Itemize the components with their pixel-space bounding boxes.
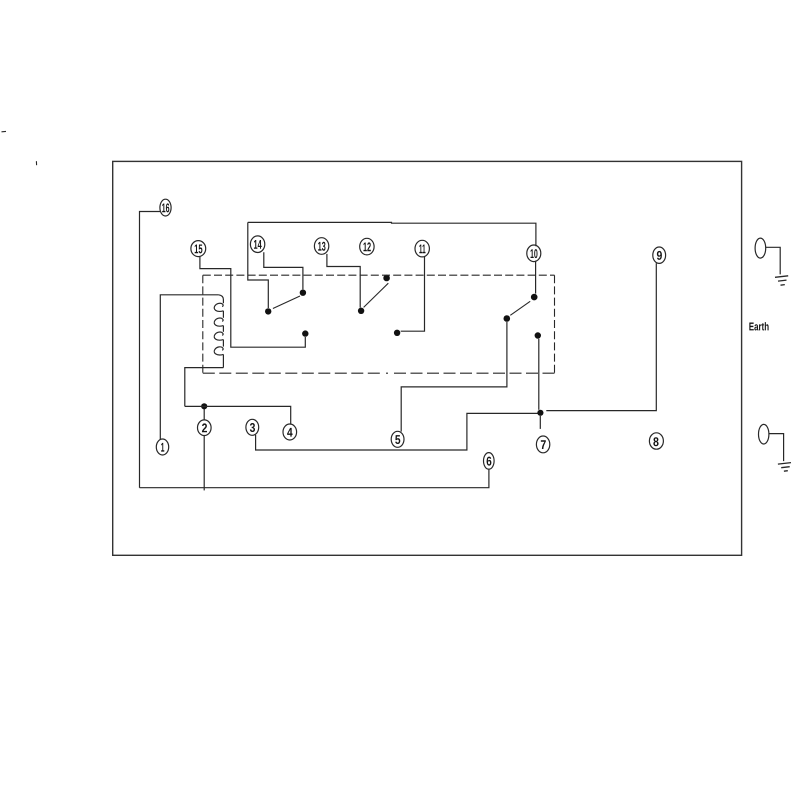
coil loop 4: [214, 347, 223, 355]
terminal 1 label: [161, 443, 164, 452]
terminal 2: [198, 420, 212, 436]
relay dashed enclosure top: [203, 274, 555, 276]
contact dot B: [300, 290, 306, 296]
contact dot I: [535, 332, 541, 338]
coil loop 1: [214, 303, 223, 311]
earth port 1 ellipse: [755, 238, 766, 258]
terminal 8 label: [653, 437, 658, 446]
wire contact A to top bus: [248, 222, 268, 308]
terminal 12: [360, 238, 374, 255]
relay dashed enclosure right: [554, 275, 556, 373]
terminal 7 label: [541, 440, 546, 449]
terminal 11 label: [419, 244, 425, 253]
wire contact H to terminal5: [401, 322, 507, 432]
wire terminal15 to contact C: [200, 256, 305, 347]
terminal 3: [246, 419, 259, 435]
wire terminal11 to contact F: [401, 257, 425, 331]
wire terminal16 lead: [140, 212, 161, 488]
wire bottom bus to terminal 6: [140, 469, 489, 488]
terminal 13 label: [318, 242, 325, 251]
terminal 7: [536, 436, 549, 453]
terminal 13: [314, 238, 328, 255]
terminal 15 label: [195, 244, 203, 253]
wire junction J to terminal3: [256, 413, 538, 450]
earth 2 wire: [769, 434, 784, 462]
terminal 10: [527, 245, 541, 262]
terminal 10 label: [531, 249, 538, 258]
switch arm D-E: [364, 283, 389, 307]
coil loop 3: [214, 332, 223, 340]
terminal 2 label: [202, 423, 207, 432]
terminal 1: [156, 439, 168, 455]
terminal 16 label: [162, 203, 169, 212]
terminal 9 label: [657, 251, 662, 260]
terminal 12 label: [363, 242, 370, 251]
switch arm A-B: [273, 296, 300, 309]
earth 1 wire: [766, 247, 781, 274]
stray tick: [35, 161, 37, 165]
earth port 2 ellipse: [759, 424, 769, 444]
terminal 8: [649, 433, 663, 449]
relay coil L1: [219, 295, 224, 303]
coil loop 2: [214, 318, 223, 326]
ground symbol 1: [775, 276, 788, 278]
switch arm G-H: [510, 301, 530, 315]
terminal 6 label: [487, 457, 492, 466]
contact dot G: [531, 294, 538, 301]
wire contact I to junction J: [538, 339, 540, 410]
terminal 16: [160, 199, 171, 216]
terminal 3 label: [250, 423, 255, 432]
wire coil-bottom bus to terminal4: [185, 406, 291, 424]
wire junction J to terminal9 riser: [546, 263, 656, 410]
Earth label: [749, 322, 768, 330]
wire junction J to terminal7: [539, 416, 541, 429]
wire coil bottom return: [185, 368, 224, 407]
terminal 14: [250, 236, 264, 253]
wire terminal13 to contact D: [327, 254, 360, 308]
border frame: [113, 161, 742, 555]
contact dot F: [394, 330, 400, 336]
terminal 4 label: [287, 428, 292, 437]
terminal 9: [653, 247, 666, 263]
contact dot D: [358, 308, 364, 314]
stray mark top-left: [2, 130, 7, 132]
terminal 5: [391, 431, 404, 447]
contact dot H: [504, 315, 511, 322]
terminal 15: [191, 241, 206, 257]
wire terminal1 riser: [160, 295, 218, 440]
terminal 11: [415, 240, 429, 257]
relay dashed enclosure left: [202, 275, 204, 373]
relay dashed enclosure bottom: [203, 372, 555, 374]
wire junction K to terminal2: [203, 406, 205, 420]
top bus wire: [248, 222, 536, 246]
terminal 5 label: [395, 435, 400, 444]
contact dot C: [302, 330, 308, 336]
contact dot E: [383, 275, 390, 282]
terminal 4: [283, 424, 297, 440]
wire terminal14 to contact B: [264, 252, 303, 289]
node K junction dot: [201, 403, 207, 409]
contact dot A: [265, 308, 271, 314]
terminal 6: [484, 453, 495, 470]
node J junction dot: [537, 410, 543, 416]
ground symbol 2: [778, 463, 791, 465]
wire terminal10 to contact G: [535, 261, 537, 294]
wire terminal2 drop: [203, 435, 205, 490]
terminal 14 label: [254, 240, 262, 249]
